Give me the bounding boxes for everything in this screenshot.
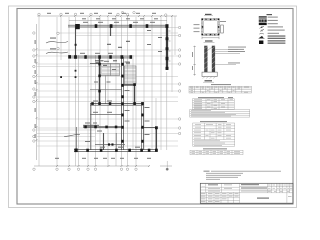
stair A xyxy=(101,64,120,76)
wall W5 xyxy=(99,57,101,104)
detail 2 footing xyxy=(202,72,217,76)
notes block xyxy=(204,171,282,180)
table T3 xyxy=(193,123,235,146)
detail 1 right stirrup bar xyxy=(221,25,224,33)
columns bottom row xyxy=(74,126,157,152)
leader curves upper-left xyxy=(46,42,80,137)
dimension ticks top xyxy=(36,15,174,167)
table T2 xyxy=(190,99,250,117)
stray rebar dots upper-left xyxy=(60,44,76,78)
detail 2 leader text xyxy=(228,47,246,64)
partition x105.6 xyxy=(105,76,107,105)
wall W20 xyxy=(75,127,77,150)
title block text specks xyxy=(201,184,292,202)
detail 1 rebar dots xyxy=(201,18,219,35)
table T4 title xyxy=(203,148,227,149)
detail 2 dim text xyxy=(191,52,194,70)
wall W22 xyxy=(115,133,117,150)
detail 1 dim ticks xyxy=(202,37,219,40)
detail 1 left dim text xyxy=(194,24,200,32)
title block outer xyxy=(200,183,293,203)
tiny text specks on plan xyxy=(35,13,162,159)
wall W18 bottom xyxy=(74,149,158,151)
table T1 xyxy=(189,86,251,93)
legend rows xyxy=(259,16,286,44)
table T2 title xyxy=(198,97,233,98)
sheet inner frame xyxy=(17,9,293,205)
wall W4 xyxy=(75,26,77,57)
grid vertical lines xyxy=(39,16,175,168)
partition y89.7 xyxy=(90,89,122,91)
table T1 title xyxy=(211,84,231,85)
legend title xyxy=(267,14,273,15)
detail 1 sub label xyxy=(205,40,213,41)
wall W9 below stair xyxy=(122,84,137,86)
wall W10 xyxy=(134,84,136,104)
wall W6 xyxy=(122,57,124,150)
detail 2 wall strips xyxy=(204,46,215,72)
stair B xyxy=(124,66,136,84)
columns row W2 xyxy=(68,55,132,59)
grid bubbles bottom xyxy=(33,168,169,170)
sheet outer frame xyxy=(9,6,297,208)
grid bubbles left xyxy=(33,32,35,142)
columns wall W3 xyxy=(166,37,169,70)
wall W21 upper-left of lower wing xyxy=(83,124,99,126)
wall W13 partition xyxy=(90,114,123,116)
bottom dimension line xyxy=(34,165,172,167)
left dimension line xyxy=(36,24,38,160)
detail 2 leaders xyxy=(193,46,244,76)
beam label cluster xyxy=(95,41,130,66)
wall C tie marks xyxy=(169,31,171,61)
grid bubbles right xyxy=(178,26,180,134)
axis bubbles mid xyxy=(57,32,59,50)
detail 1 column section xyxy=(202,19,219,35)
wall W11 xyxy=(90,104,144,106)
wall left edge lower wing xyxy=(90,104,92,150)
wall W16 xyxy=(103,133,105,150)
wall W1 top xyxy=(68,25,168,27)
wall W19 xyxy=(155,128,157,151)
short wall top xyxy=(110,26,112,36)
wall under stair A xyxy=(90,63,101,65)
title block inner lines xyxy=(200,183,293,203)
wall W17 partition xyxy=(95,143,125,145)
table T3 title xyxy=(200,121,227,122)
table T4 xyxy=(190,150,243,154)
wall W12 xyxy=(142,102,144,150)
detail 1 title xyxy=(205,14,212,15)
grid horizontal lines xyxy=(37,28,178,147)
top dimension line xyxy=(34,16,177,166)
wall W14 xyxy=(83,126,123,128)
columns row W1 xyxy=(75,24,168,29)
detail 2 title xyxy=(205,80,213,81)
wall W3 right xyxy=(166,26,168,70)
wall W2 xyxy=(70,56,131,58)
columns W5/W6 interior xyxy=(84,63,144,146)
grid bubbles top xyxy=(38,11,167,16)
